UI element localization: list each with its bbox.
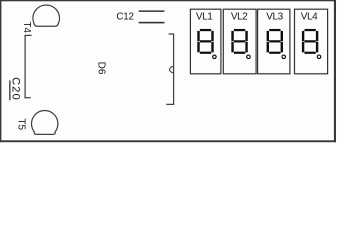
display VL1 outline bbox=[190, 9, 221, 74]
display VL1 bbox=[190, 9, 221, 74]
IC D6 outline right bracket bbox=[166, 34, 173, 104]
IC D6 outline left bracket bbox=[25, 35, 31, 97]
display VL3 bbox=[258, 9, 290, 74]
display VL2 outline bbox=[223, 9, 256, 74]
svg-text:D6: D6 bbox=[95, 62, 106, 75]
svg-text:T4: T4 bbox=[21, 21, 32, 33]
svg-text:VL1: VL1 bbox=[196, 12, 213, 23]
svg-text:VL4: VL4 bbox=[301, 12, 318, 23]
svg-text:C12: C12 bbox=[116, 12, 133, 23]
display VL2 bbox=[223, 9, 256, 74]
display VL3 outline bbox=[258, 9, 290, 74]
7-segment digit VL3 bbox=[267, 29, 283, 54]
svg-text:VL3: VL3 bbox=[266, 12, 283, 23]
transistor T5 bbox=[32, 111, 58, 135]
decimal point VL3 bbox=[282, 55, 286, 59]
capacitor C20 plate bbox=[9, 81, 10, 101]
7-segment digit VL1 bbox=[197, 29, 213, 54]
7-segment digit VL2 bbox=[231, 29, 247, 54]
display VL4 outline bbox=[295, 9, 328, 74]
decimal point VL4 bbox=[317, 55, 321, 59]
capacitor C12 bbox=[139, 10, 165, 23]
svg-text:VL2: VL2 bbox=[231, 12, 248, 23]
display VL4 bbox=[295, 9, 328, 74]
7-segment digit VL4 bbox=[302, 29, 318, 54]
decimal point VL2 bbox=[247, 55, 251, 59]
svg-text:C20: C20 bbox=[10, 77, 22, 101]
IC D6 pin-1 notch bbox=[170, 66, 174, 72]
transistor T4 bbox=[33, 5, 60, 26]
svg-text:T5: T5 bbox=[16, 118, 27, 130]
decimal point VL1 bbox=[213, 55, 217, 59]
